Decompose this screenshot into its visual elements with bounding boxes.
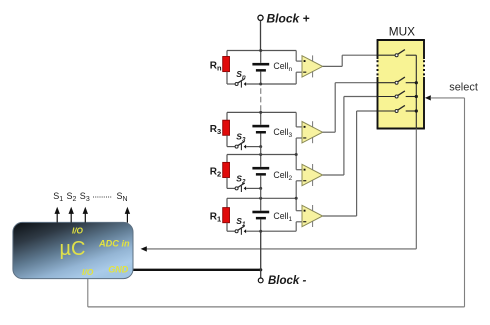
wire cell3 top rail <box>227 111 296 113</box>
MUX switch 3 <box>378 91 417 98</box>
junction cell3 bottom centre <box>259 145 262 148</box>
wire opamp2 output riser <box>343 97 345 176</box>
resistor R2 <box>223 162 230 177</box>
wire opamp3 output <box>323 131 336 133</box>
wire dashed stack continuation <box>260 88 262 111</box>
MUX switch 4 <box>378 105 417 112</box>
wire ADC in horizontal <box>146 248 416 250</box>
switch S3 <box>235 145 238 148</box>
wire cell2 left branch lower <box>226 178 228 189</box>
wire cell1 bottom rail left <box>227 230 235 232</box>
wire cell2 top rail <box>227 154 296 156</box>
wire opamp1 -input stub <box>296 221 302 223</box>
cell2 battery positive plate <box>252 167 269 170</box>
junction Block- node <box>259 268 262 271</box>
wire cell3 left branch lower <box>226 135 228 146</box>
wire uC I/O drop <box>87 279 89 307</box>
wire select horizontal <box>430 97 464 99</box>
celln battery positive plate <box>252 63 269 66</box>
switch S1 <box>235 230 238 233</box>
wire opamp1 output to MUX <box>357 110 378 112</box>
resistor R3 <box>223 120 230 135</box>
wire celln top rail <box>227 50 296 52</box>
cell1 battery negative plate <box>256 217 266 220</box>
wire cell1 battery top lead <box>260 198 262 210</box>
wire opamp1 +input stub <box>296 210 302 212</box>
wire opamp3 +input drop <box>295 112 297 127</box>
svg-text:Block -: Block - <box>268 275 307 287</box>
wire cell3 battery top lead <box>260 112 262 124</box>
wire celln battery bottom lead <box>260 72 262 84</box>
resistor R1 <box>223 208 230 223</box>
arrow uC switch-control output <box>70 214 72 223</box>
svg-text:select: select <box>449 82 478 94</box>
wire cell3 left branch upper <box>226 112 228 120</box>
wire stack link cell3-cell2 <box>260 147 262 155</box>
wire opamp1 output <box>323 215 357 217</box>
wire opamp3 -input drop <box>295 138 297 155</box>
svg-text:ADC in: ADC in <box>98 239 130 249</box>
junction celln top centre <box>259 49 262 52</box>
wire cell1 top rail <box>227 197 296 199</box>
cell3 battery positive plate <box>252 125 269 128</box>
wire cell1 left branch lower <box>226 223 228 232</box>
wire opampn -input stub <box>296 71 302 73</box>
wire opamp3 -input stub <box>296 137 302 139</box>
arrow uC switch-control output <box>56 214 58 223</box>
wire opamp3 output to MUX <box>335 82 377 84</box>
wire cell2 bottom rail left <box>227 187 235 189</box>
arrow uC switch-control output <box>126 214 128 223</box>
svg-text:I/O: I/O <box>82 267 94 277</box>
junction cell2 bottom centre <box>259 187 262 190</box>
wire opamp2 +input drop <box>295 155 297 170</box>
arrow select into MUX <box>425 95 431 100</box>
node Block+ terminal <box>258 15 263 20</box>
wire Block+ to cell n top <box>260 21 262 51</box>
junction celln bottom centre <box>259 83 262 86</box>
celln battery negative plate <box>256 69 266 72</box>
junction node cell1 top / opamp2 - <box>295 197 298 200</box>
wire opamp1 +input drop <box>295 198 297 210</box>
junction cell3 top centre <box>259 111 262 114</box>
junction cell2 top centre <box>259 153 262 156</box>
wire cell3 bottom rail left <box>227 146 235 148</box>
wire opampn output riser <box>341 55 343 66</box>
wire cell3 bottom rail right <box>246 146 261 148</box>
wire cell2 left branch upper <box>226 155 228 163</box>
MUX box <box>378 40 425 129</box>
wire opamp2 -input drop <box>295 181 297 199</box>
wire stack link cell2-cell1 <box>260 188 262 198</box>
svg-text:µC: µC <box>60 238 86 260</box>
wire opamp1 -input drop <box>295 222 297 231</box>
wire MUX output to ADC vertical <box>415 129 417 249</box>
svg-text:I/O: I/O <box>72 227 84 236</box>
junction MUX bus <box>415 95 418 98</box>
junction MUX bus <box>415 81 418 84</box>
arrow ADC in <box>141 246 147 251</box>
wire cell3 battery bottom lead <box>260 134 262 147</box>
switch S2 <box>235 187 238 190</box>
wire opamp2 +input stub <box>296 169 302 171</box>
wire cell2 bottom rail right <box>246 187 261 189</box>
node Block- terminal <box>258 278 263 283</box>
svg-text:MUX: MUX <box>389 25 415 39</box>
wire celln left branch upper <box>226 51 228 57</box>
svg-text:Block +: Block + <box>267 12 310 26</box>
wire opamp3 output riser <box>334 83 336 133</box>
wire opampn -input drop <box>295 72 297 84</box>
switch Sn <box>235 83 238 86</box>
wire celln left branch lower <box>226 72 228 84</box>
wire celln bottom rail left <box>227 83 235 85</box>
op-amp U3 <box>302 121 323 143</box>
wire opamp2 output <box>323 174 344 176</box>
wire cell1 bottom rail right <box>246 230 296 232</box>
wire opamp3 +input stub <box>296 126 302 128</box>
wire MUX output bus <box>415 55 417 128</box>
wire celln battery top lead <box>260 51 262 63</box>
junction cell1 bottom centre <box>259 230 262 233</box>
junction cell1 top centre <box>259 197 262 200</box>
junction MUX bus <box>415 109 418 112</box>
MUX switch 2 <box>378 77 417 84</box>
cell2 battery negative plate <box>256 173 266 176</box>
svg-text:.........: ......... <box>92 190 111 200</box>
MUX edge continuation dots <box>377 60 379 62</box>
wire cell1 left branch upper <box>226 198 228 207</box>
svg-text:GND: GND <box>108 265 129 275</box>
op-amp U1 <box>302 205 323 227</box>
wire cell2 battery top lead <box>260 155 262 167</box>
wire select bottom return <box>88 306 465 308</box>
resistor Rn <box>223 57 230 72</box>
wire opamp1 output riser <box>356 111 358 216</box>
wire cell1 battery bottom lead <box>260 219 262 231</box>
wire opamp2 output to MUX <box>344 96 378 98</box>
wire select riser <box>464 98 466 307</box>
cell1 battery positive plate <box>252 211 269 214</box>
wire cell1 bottom to Block- <box>260 231 262 278</box>
op-amp U2 <box>302 164 323 186</box>
wire GND thick <box>133 269 261 271</box>
junction node cell2 top / opamp3 - <box>295 153 298 156</box>
MUX switch 1 <box>378 50 417 57</box>
op-amp Un <box>302 55 323 77</box>
cell3 battery negative plate <box>256 131 266 134</box>
wire opamp2 -input stub <box>296 180 302 182</box>
wire opampn output <box>323 65 343 67</box>
wire opampn output to MUX <box>342 54 377 56</box>
wire celln bottom rail right <box>246 83 296 85</box>
wire cell2 battery bottom lead <box>260 176 262 189</box>
wire opampn +input stub <box>296 60 302 62</box>
wire opampn +input drop <box>295 51 297 62</box>
arrow uC switch-control output <box>84 214 86 223</box>
